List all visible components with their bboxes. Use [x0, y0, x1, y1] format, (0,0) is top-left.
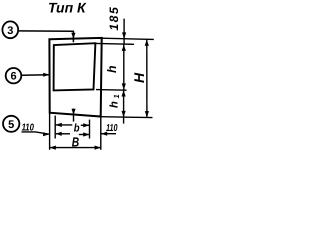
- inner window contour: [54, 43, 96, 90]
- extension below: outer-right: [100, 117, 102, 150]
- svg-text:H: H: [131, 72, 147, 83]
- value label 110 (right, on shelf): [101, 123, 118, 136]
- svg-text:1: 1: [112, 94, 121, 98]
- extension below: window-left: [54, 116, 56, 139]
- value label 110 (left, on shelf): [22, 123, 50, 137]
- window-top extension line: [96, 42, 134, 45]
- dimension b (window width): [56, 122, 90, 134]
- svg-text:h: h: [105, 65, 119, 73]
- window-bottom extension line: [96, 89, 127, 92]
- dimension 185 (top limb): [107, 6, 126, 44]
- bottom extension line: [101, 116, 153, 119]
- svg-text:185: 185: [107, 6, 121, 31]
- extension below: window-right: [89, 120, 91, 139]
- extension below: outer-left: [49, 113, 51, 150]
- tape-end arrow at bottom edge: [72, 109, 76, 122]
- svg-text:5: 5: [8, 119, 14, 131]
- outside arrows of 110 pair (right): [79, 132, 90, 136]
- callout circle 3: [2, 21, 18, 38]
- svg-text:6: 6: [10, 71, 16, 83]
- svg-text:Тип К: Тип К: [48, 0, 87, 16]
- dimension B (full width): [50, 135, 101, 150]
- svg-text:b: b: [74, 122, 80, 134]
- dimension H (full height): [131, 40, 149, 118]
- leader from circle 3: [18, 31, 75, 42]
- outer core contour: [49, 38, 101, 117]
- dimension h1 (bottom limb): [109, 90, 126, 123]
- outside arrows of 110 pair (left): [55, 132, 70, 136]
- svg-text:В: В: [72, 135, 80, 150]
- top extension line: [102, 38, 154, 39]
- svg-text:110: 110: [106, 123, 118, 134]
- svg-text:h: h: [109, 101, 121, 108]
- callout circle 5: [3, 116, 19, 132]
- dimension h (window height): [105, 45, 126, 90]
- leader from circle 6: [21, 73, 49, 77]
- callout circle 6: [6, 68, 22, 83]
- svg-text:3: 3: [7, 25, 13, 37]
